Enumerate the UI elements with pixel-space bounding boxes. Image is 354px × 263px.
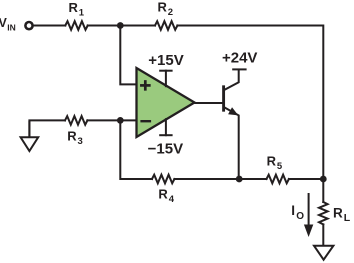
op-amp minus input symbol [142,120,150,122]
wire R1 to R2 through node A [88,25,155,27]
op-amp negative supply pin -15V [160,119,171,135]
svg-text:R: R [158,187,168,202]
op-amp positive supply pin +15V [160,71,171,87]
label R5 [267,154,283,173]
node D junction dot (output node, right rail) [320,176,327,183]
svg-text:2: 2 [168,7,173,18]
wire node B down to bottom rail [120,124,152,179]
label +15V [148,52,183,69]
resistor R3 [65,116,87,125]
node VIN input terminal [25,22,32,29]
label R4 [158,187,174,206]
svg-text:R: R [67,128,77,143]
wire node C to R5 [239,178,266,180]
svg-text:R: R [69,0,79,15]
wire R5 to node D [289,178,323,180]
node A junction dot (top, x=120) [117,22,124,29]
svg-text:R: R [267,154,277,169]
wire op-amp output to transistor base [196,102,223,104]
label R1 [69,0,85,19]
wire VIN terminal to R1 [34,25,66,27]
resistor R5 [267,175,289,184]
wire node D down to RL [322,179,324,202]
svg-text:−15V: −15V [148,140,183,157]
svg-text:5: 5 [277,161,283,172]
wire node A down to op-amp noninverting input [120,29,135,85]
transistor Q1 emitter [225,108,239,176]
resistor R1 [65,21,87,30]
svg-text:+24V: +24V [222,49,257,66]
supply pin +24V [233,68,245,70]
svg-text:3: 3 [78,136,83,147]
svg-text:I: I [291,203,295,218]
resistor R4 [152,175,174,184]
svg-text:4: 4 [169,194,175,205]
label +24V [222,49,257,66]
label VIN [0,16,16,33]
label R2 [158,0,174,18]
label IO [291,203,304,222]
current arrow IO [304,194,313,237]
transistor Q1 base bar [222,87,225,110]
node B junction dot (inverting input, x=120) [117,117,124,124]
svg-text:R: R [333,206,343,221]
label RL [333,206,351,225]
op-amp plus input symbol [141,82,149,90]
svg-text:1: 1 [79,8,85,19]
node C junction dot (emitter to bottom rail) [236,176,243,183]
resistor R2 [155,21,177,30]
op-amp U1 [137,68,195,137]
label -15V [148,140,183,157]
svg-text:L: L [344,212,351,224]
wire R4 to emitter node C [174,178,239,180]
transistor Q1 emitter arrow [229,108,237,115]
wire RL to ground [322,224,324,245]
wire ground to R3 [29,120,65,136]
svg-text:O: O [296,211,304,222]
transistor Q1 collector [225,70,239,89]
svg-text:IN: IN [7,23,16,33]
resistor RL [319,202,328,224]
label R3 [67,128,83,147]
ground (left) [21,122,39,151]
wire R2 to top-right corner [177,26,323,176]
svg-text:+15V: +15V [148,52,183,69]
svg-text:R: R [158,0,168,15]
ground (right, below RL) [314,246,333,260]
wire R3 to op-amp inverting input through node B [87,119,135,121]
